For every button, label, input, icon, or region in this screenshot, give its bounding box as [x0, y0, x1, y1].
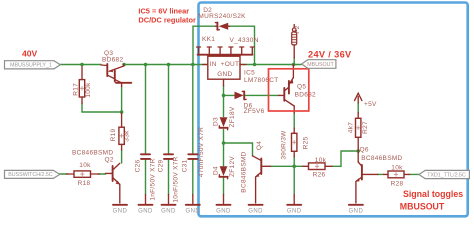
svg-text:C31: C31	[182, 160, 189, 173]
svg-text:C26: C26	[135, 160, 142, 173]
svg-text:R17: R17	[72, 83, 79, 96]
svg-text:33k: 33k	[124, 130, 131, 142]
svg-text:MBUSOUT: MBUSOUT	[307, 62, 334, 68]
svg-text:10k: 10k	[315, 157, 327, 164]
svg-text:10k: 10k	[391, 164, 403, 171]
svg-text:10k: 10k	[79, 162, 91, 169]
svg-text:R19: R19	[110, 129, 117, 142]
svg-text:F2: F2	[294, 25, 301, 33]
svg-text:4k7: 4k7	[347, 122, 354, 133]
svg-text:KK1: KK1	[202, 36, 215, 43]
svg-text:BC846BSMD: BC846BSMD	[72, 150, 113, 157]
svg-text:D3: D3	[213, 117, 220, 126]
svg-text:MBUSSUPPLY_1: MBUSSUPPLY_1	[10, 63, 52, 69]
svg-text:1nF/50V X7R: 1nF/50V X7R	[149, 158, 156, 200]
svg-text:BUSSWITCH/2.5C: BUSSWITCH/2.5C	[8, 172, 53, 178]
svg-text:R18: R18	[78, 180, 91, 187]
svg-text:BD682: BD682	[295, 92, 316, 99]
svg-text:R25: R25	[303, 137, 310, 150]
svg-text:GND: GND	[248, 208, 263, 214]
svg-text:BC846BSMD: BC846BSMD	[361, 155, 402, 162]
svg-text:Q2: Q2	[105, 157, 114, 164]
svg-text:GND: GND	[113, 208, 128, 214]
svg-text:IC5: IC5	[244, 70, 255, 77]
svg-text:R28: R28	[391, 180, 404, 187]
svg-text:GND: GND	[138, 208, 153, 214]
svg-text:GND: GND	[161, 208, 176, 214]
svg-text:MURS240/S2K: MURS240/S2K	[198, 13, 246, 20]
svg-text:ZF12V: ZF12V	[229, 156, 236, 177]
svg-text:470nF/50V X7R: 470nF/50V X7R	[198, 127, 205, 177]
svg-text:+5V: +5V	[364, 101, 377, 108]
svg-text:GND: GND	[185, 208, 200, 214]
svg-text:C29: C29	[158, 160, 165, 173]
svg-text:40V: 40V	[22, 49, 38, 59]
svg-text:Q5: Q5	[297, 84, 306, 91]
svg-text:R26: R26	[313, 172, 326, 179]
svg-text:GND: GND	[217, 71, 232, 78]
svg-text:BD682: BD682	[102, 57, 123, 64]
svg-text:24V / 36V: 24V / 36V	[308, 50, 352, 60]
svg-text:Signal toggles: Signal toggles	[403, 189, 463, 199]
svg-text:ZF5V6: ZF5V6	[244, 108, 265, 115]
svg-text:V_4330N: V_4330N	[230, 37, 259, 44]
svg-text:Q6: Q6	[360, 147, 369, 154]
svg-text:BC846BSMD: BC846BSMD	[240, 151, 247, 192]
svg-text:+OUT: +OUT	[221, 61, 240, 68]
svg-text:GND: GND	[349, 208, 364, 214]
svg-text:MBUSOUT: MBUSOUT	[400, 201, 445, 211]
svg-text:ZF18V: ZF18V	[229, 106, 236, 127]
svg-text:TXD1_TTL/2.5C: TXD1_TTL/2.5C	[427, 172, 466, 178]
svg-text:D4: D4	[213, 166, 220, 175]
svg-text:GND: GND	[216, 208, 231, 214]
svg-text:GND: GND	[287, 208, 302, 214]
svg-text:LM7806CT: LM7806CT	[244, 77, 279, 84]
svg-text:R27: R27	[362, 121, 369, 134]
svg-text:Q4: Q4	[256, 141, 263, 150]
svg-text:100k: 100k	[85, 82, 92, 98]
svg-text:10nF/50V X7R: 10nF/50V X7R	[173, 156, 180, 202]
svg-text:IC5 = 6V linear: IC5 = 6V linear	[138, 7, 189, 16]
svg-text:390R/3W: 390R/3W	[281, 130, 288, 160]
svg-text:DC/DC regulator: DC/DC regulator	[138, 15, 196, 24]
svg-text:IN: IN	[210, 61, 217, 68]
